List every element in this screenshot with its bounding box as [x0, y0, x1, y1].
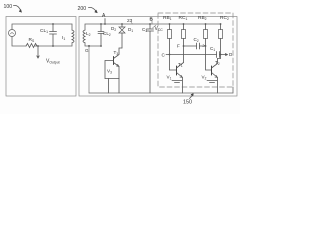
capacitor CL1	[50, 24, 57, 46]
battery V1	[172, 81, 182, 83]
junction CL1 top	[52, 23, 54, 25]
wire C-D coupling (C1 wire)	[166, 54, 227, 56]
svg-text:F: F	[177, 44, 180, 49]
wire left loop top	[12, 24, 72, 30]
capacitor C1 plates	[217, 52, 220, 58]
Vcc leader tick	[153, 25, 157, 28]
left enclosure box 100	[6, 17, 76, 97]
svg-text:150: 150	[183, 100, 192, 106]
capacitor CL2	[98, 24, 104, 46]
node E arrow	[203, 45, 206, 47]
transistor T3	[119, 48, 122, 53]
node B tick	[151, 20, 153, 24]
transistor T2	[211, 66, 213, 75]
junction CL1 bottom	[52, 45, 54, 47]
label 150 leader arrow	[190, 95, 193, 99]
svg-text:200: 200	[78, 6, 87, 12]
capacitor C2 plates	[197, 43, 200, 49]
RB1 jog to T1 base	[170, 69, 177, 71]
battery V2	[207, 81, 217, 83]
label 100 leader arrow	[14, 5, 21, 11]
source V (circle)	[9, 30, 16, 37]
dashed box 150	[158, 13, 233, 87]
top rail wire	[105, 23, 221, 25]
wire G to ground rail	[88, 46, 90, 93]
T3 emitter-base join and return	[105, 78, 119, 80]
right enclosure box 200	[79, 17, 237, 97]
resistor RC2	[218, 24, 221, 59]
svg-text:100: 100	[4, 4, 13, 10]
diode pair D1 D2	[121, 24, 123, 27]
wire left loop left-bottom	[12, 37, 26, 47]
inductor L2 (secondary winding)	[83, 30, 85, 43]
wire bottom to right corner	[35, 45, 72, 47]
wire L2 bottom to node G	[85, 43, 101, 46]
node A tick	[104, 19, 106, 25]
ground rail	[89, 92, 233, 94]
resistor RB2	[206, 24, 212, 70]
label 200 leader arrow	[89, 7, 97, 11]
resistor Rs zigzag	[26, 44, 37, 48]
wire F node coupling (C2 wire)	[184, 45, 206, 47]
dashed box lower-right stub	[232, 87, 234, 93]
svg-text:23: 23	[127, 18, 133, 24]
resistor RB1	[169, 24, 171, 70]
wire L2 top to rail	[85, 24, 105, 30]
resistor RC1	[183, 24, 185, 63]
capacitor C3	[147, 24, 154, 93]
svg-text:G: G	[85, 48, 89, 53]
V_Output arrow	[37, 45, 39, 47]
node G junction	[88, 45, 90, 47]
wire 23 tick	[131, 22, 133, 24]
transistor T1	[176, 66, 178, 75]
inductor L1 (primary winding)	[71, 24, 73, 30]
